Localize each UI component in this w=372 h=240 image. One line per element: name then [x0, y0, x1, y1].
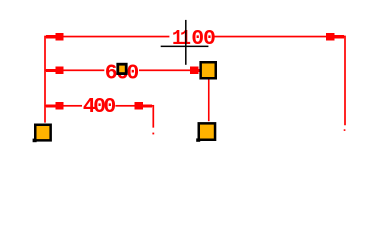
svg-text:0: 0 — [103, 95, 116, 119]
svg-text:0: 0 — [126, 61, 139, 85]
svg-text:0: 0 — [203, 27, 216, 51]
